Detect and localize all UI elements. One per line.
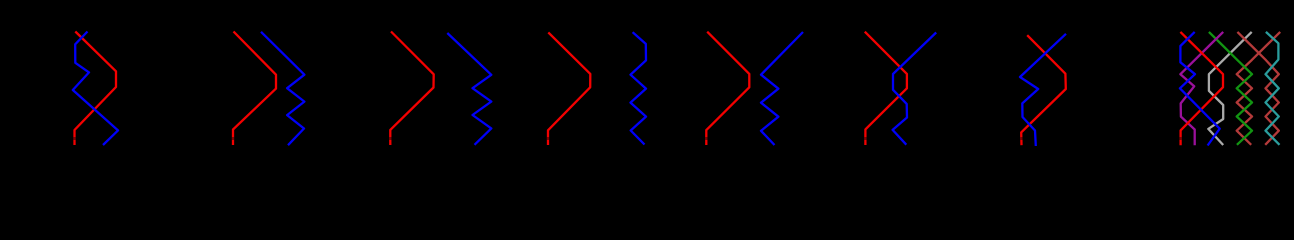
panel 2 blue worldline (zigzag) xyxy=(261,32,304,145)
panel 1 red worldline xyxy=(75,32,117,146)
panel 7 blue worldline xyxy=(1020,34,1066,146)
panel 6 blue worldline xyxy=(893,33,937,145)
panel 6 red worldline xyxy=(865,32,907,145)
panel 8 gray strand xyxy=(1208,32,1251,145)
panel 8 purple strand xyxy=(1180,32,1223,145)
panel 3 blue worldline (zigzag) xyxy=(447,33,491,145)
panel 8 teal strand xyxy=(1266,32,1280,145)
panel 1 blue worldline xyxy=(73,32,118,146)
panel 8 green strand xyxy=(1209,32,1252,145)
panel 8 firebrick strand A xyxy=(1237,32,1278,145)
panel 8 red strand xyxy=(1180,32,1223,145)
dim patch on red tails xyxy=(73,137,76,140)
panel 4 blue worldline (zigzag) xyxy=(631,32,647,144)
panel 4 red worldline xyxy=(548,32,590,145)
panel 8 blue strand xyxy=(1180,32,1220,146)
panel 5 red worldline xyxy=(706,32,749,145)
panel 8 firebrick strand B xyxy=(1237,32,1281,145)
panel 2 red worldline xyxy=(233,32,276,146)
panel 7 red worldline xyxy=(1021,35,1066,145)
panel 5 blue worldline (zigzag) xyxy=(761,32,803,145)
panel 3 red worldline xyxy=(390,32,433,146)
